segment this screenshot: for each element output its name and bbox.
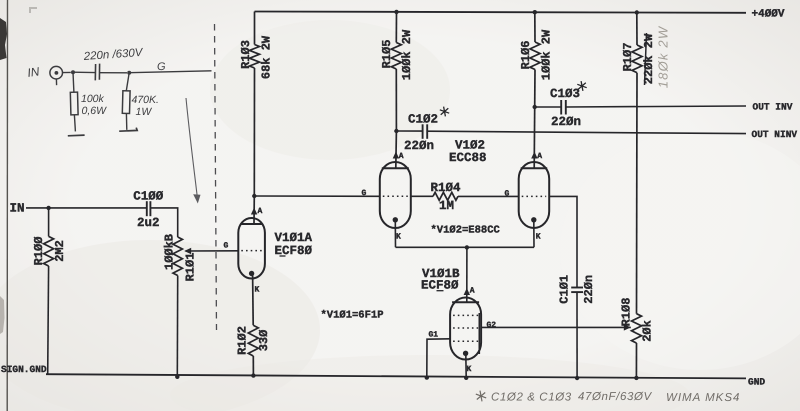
svg-text:G: G — [157, 61, 166, 73]
node V101A anode — [252, 194, 256, 198]
label G wiper — [224, 242, 229, 251]
label 220n C103 — [551, 115, 581, 129]
label 20k — [640, 320, 654, 342]
svg-text:GND: GND — [748, 377, 765, 388]
label G V102b — [505, 189, 510, 198]
wire R105 to node — [395, 69, 397, 131]
wire R103 top — [254, 12, 256, 45]
+400V rail — [255, 12, 747, 13]
svg-text:R1Ø8: R1Ø8 — [620, 298, 634, 327]
label 330 — [257, 330, 271, 352]
label A V102a — [399, 152, 404, 161]
wire R108 to gnd — [635, 343, 637, 378]
resistor R103 — [250, 45, 260, 69]
svg-text:1M: 1M — [439, 199, 454, 213]
anode arrow V101A — [251, 208, 257, 215]
label R103 — [239, 40, 253, 69]
label V102 — [455, 139, 485, 153]
pencil label 180k 2W — [656, 25, 671, 88]
svg-text:C1Ø3: C1Ø3 — [550, 87, 580, 101]
label 220n C101 — [582, 275, 596, 304]
node R107 rail — [635, 10, 639, 14]
strikethrough 220k — [645, 33, 647, 85]
node C102 — [394, 129, 398, 133]
node dot 2 (hand) — [127, 71, 131, 75]
wire V102b cathode — [533, 220, 535, 248]
label R107 — [621, 43, 635, 72]
svg-text:47ØnF/63ØV: 47ØnF/63ØV — [578, 391, 652, 403]
svg-text:A: A — [258, 207, 263, 216]
wire R106 to node — [534, 70, 536, 108]
svg-text:K: K — [396, 233, 401, 242]
capacitor C102 — [423, 124, 428, 139]
wire V101A cathode — [252, 274, 255, 326]
node R102 gnd — [251, 373, 255, 377]
label K V102b — [536, 233, 541, 242]
label R104 — [430, 181, 461, 195]
node G1 gnd — [425, 375, 429, 379]
label 1M — [439, 199, 454, 213]
wire V102a grid to R104 — [411, 195, 433, 197]
OUT NINV label — [752, 129, 798, 140]
wire V101B cathode — [465, 353, 467, 378]
wire R105 top — [395, 12, 397, 43]
annotation arrow (hand) — [186, 98, 201, 204]
svg-text:G1: G1 — [429, 331, 439, 340]
wire node1 to C220n — [73, 71, 95, 73]
IN label — [10, 202, 25, 216]
star C103 — [577, 81, 586, 91]
label 100k 2W R106 — [540, 29, 554, 80]
node tail — [465, 245, 469, 249]
resistor R105 — [391, 43, 401, 70]
svg-text:C1Ø2 & C1Ø3: C1Ø2 & C1Ø3 — [491, 392, 572, 404]
label A V101A — [258, 207, 263, 216]
wire R101 to gnd — [176, 276, 178, 377]
wire V102b grid right — [549, 196, 577, 287]
triode V102a — [380, 162, 411, 228]
wire C220n to node 2 — [100, 72, 127, 74]
svg-text:33Ø: 33Ø — [257, 330, 271, 352]
pencil note bottom — [476, 391, 741, 404]
note V102=E88CC — [431, 225, 501, 237]
label C100 — [133, 190, 164, 204]
svg-text:OUT NINV: OUT NINV — [752, 129, 798, 140]
resistor R107 — [632, 45, 642, 73]
node K gnd — [464, 376, 468, 380]
ground rail — [46, 374, 746, 378]
svg-text:2Øk: 2Øk — [640, 320, 654, 342]
label V101B — [422, 267, 460, 281]
node C101 gnd — [575, 376, 579, 380]
label 100k 0.6W (hand) — [81, 93, 107, 117]
node R101 gnd — [175, 375, 179, 379]
GND label — [748, 377, 765, 388]
svg-text:WIMA MKS4: WIMA MKS4 — [666, 392, 740, 404]
wire R100 lower — [47, 266, 50, 374]
svg-text:R1Ø6: R1Ø6 — [519, 41, 533, 70]
wire C103 left — [535, 106, 562, 108]
label K V102a — [396, 233, 401, 242]
star C102 — [440, 107, 449, 117]
svg-text:R1ØØ: R1ØØ — [32, 237, 46, 266]
separator dashed line — [215, 24, 217, 330]
wire node to V102a anode — [395, 131, 398, 168]
wire node to V101A anode — [253, 196, 255, 224]
label 68k 2W — [260, 35, 274, 79]
svg-text:22Øn: 22Øn — [582, 275, 596, 304]
svg-text:R1Ø7: R1Ø7 — [621, 43, 635, 72]
potentiometer R108 — [632, 314, 642, 343]
wire R102 to gnd — [252, 356, 254, 376]
label 100k 2W R105 — [400, 29, 414, 80]
label C103 — [550, 87, 580, 101]
label 2M2 — [53, 240, 67, 262]
wire node to V102b anode — [533, 107, 536, 168]
wire OUT INV — [566, 106, 746, 107]
R101 wiper arrow — [184, 248, 191, 254]
svg-text:K: K — [467, 365, 472, 374]
ground under 470K (hand) — [119, 128, 137, 132]
label 220n C102 — [404, 139, 434, 153]
node R100 top — [46, 206, 50, 210]
svg-text:1ØØk 2W: 1ØØk 2W — [540, 29, 554, 80]
connector J-IN (hand-drawn jack) — [50, 66, 63, 85]
label K V101A — [255, 286, 260, 295]
svg-text:G: G — [505, 189, 510, 198]
svg-text:C1Ø2: C1Ø2 — [408, 113, 438, 127]
node dot 1 (hand) — [71, 70, 75, 74]
svg-text:IN: IN — [10, 202, 25, 216]
resistor 470K 1W (hand-drawn box) — [122, 73, 130, 130]
label G2 — [487, 321, 497, 330]
svg-text:22Øn: 22Øn — [404, 139, 434, 153]
label ECF80 V101A — [275, 244, 313, 258]
wire G2 — [481, 326, 631, 328]
label G1 — [429, 331, 439, 340]
pentode V101B — [450, 298, 481, 360]
node R108 gnd — [634, 376, 638, 380]
resistor R104 — [433, 192, 458, 200]
svg-text:470K.: 470K. — [132, 94, 159, 106]
wire OUT NINV — [427, 131, 746, 133]
capacitor 220n/630V (hand-drawn) — [95, 64, 99, 81]
label 100kB — [163, 234, 177, 270]
label R106 — [519, 41, 533, 70]
R108 wiper arrow — [624, 324, 631, 330]
svg-text:C1Ø1: C1Ø1 — [557, 275, 571, 304]
pentode V101B inner g2 bar — [478, 313, 480, 354]
tail wire — [396, 246, 535, 248]
IN label (hand-drawn) — [26, 64, 40, 80]
label ECC88 — [449, 151, 487, 165]
svg-text:K: K — [255, 286, 260, 295]
wire tail to V101B anode — [466, 247, 468, 302]
label ECF80 V101B — [421, 279, 459, 293]
wire IN — [26, 207, 147, 209]
resistor 100k 0.6W (hand-drawn box) — [70, 72, 78, 131]
svg-text:SIGN.GND: SIGN.GND — [1, 364, 47, 375]
svg-text:R1Ø1: R1Ø1 — [184, 253, 198, 282]
wire R107 top — [636, 13, 638, 46]
label R101 — [184, 253, 198, 282]
svg-text:G: G — [224, 242, 229, 251]
wire R103 to node — [253, 68, 255, 196]
anode arrow V102b — [531, 152, 537, 159]
R101 wiper wire — [186, 250, 239, 252]
+400V label — [752, 9, 785, 21]
SIGN.GND label — [1, 364, 47, 375]
node R106 rail — [533, 10, 537, 14]
svg-text:1ØØk 2W: 1ØØk 2W — [400, 29, 414, 80]
label 220n/630V (hand) — [82, 47, 144, 63]
svg-text:2M2: 2M2 — [53, 240, 67, 262]
resistor R102 — [248, 325, 258, 356]
label R105 — [380, 40, 394, 69]
resistor R106 — [530, 42, 540, 70]
wire jack to node — [63, 71, 71, 73]
svg-text:K: K — [536, 233, 541, 242]
label R100 — [32, 237, 46, 266]
svg-text:R1Ø5: R1Ø5 — [380, 40, 394, 69]
svg-text:1W: 1W — [136, 106, 153, 118]
label G V102a — [362, 189, 367, 198]
wire C102 left — [396, 130, 422, 132]
label R108 — [620, 298, 634, 327]
label V101A — [275, 231, 313, 245]
label A V101B — [470, 287, 475, 296]
svg-text:OUT INV: OUT INV — [753, 102, 793, 113]
triode V101A — [238, 218, 265, 279]
note V101=6F1P — [321, 310, 384, 322]
potentiometer R101 — [173, 237, 182, 276]
wire grid V101A->V102a — [254, 195, 379, 197]
triode V102b — [519, 162, 550, 228]
wire R106 top — [534, 12, 536, 42]
svg-text:2u2: 2u2 — [137, 216, 160, 230]
wire R107 to R108 — [636, 73, 639, 314]
svg-text:0,6W: 0,6W — [82, 105, 108, 117]
svg-text:R1Ø2: R1Ø2 — [236, 326, 250, 355]
label 220k 2W R107 — [642, 33, 656, 84]
wire R104 to V102b grid — [458, 195, 519, 197]
wire R100 upper — [48, 208, 50, 237]
svg-text:1ØØkB: 1ØØkB — [163, 234, 177, 270]
anode arrow V101B — [464, 288, 470, 295]
node R105 rail — [394, 10, 398, 14]
svg-text:R1Ø3: R1Ø3 — [239, 40, 253, 69]
capacitor C103 — [561, 100, 566, 115]
svg-text:R1Ø4: R1Ø4 — [430, 181, 461, 195]
label C102 — [408, 113, 438, 127]
label A V102b — [537, 152, 542, 161]
svg-text:C1ØØ: C1ØØ — [133, 190, 164, 204]
wire C101 to gnd — [576, 292, 578, 378]
svg-text:*V1Ø1=6F1P: *V1Ø1=6F1P — [321, 310, 384, 322]
svg-text:A: A — [470, 287, 475, 296]
svg-text:*V1Ø2=E88CC: *V1Ø2=E88CC — [431, 225, 501, 237]
svg-text:A: A — [537, 152, 542, 161]
label 2u2 — [137, 216, 160, 230]
label R102 — [236, 326, 250, 355]
anode arrow V102a — [393, 152, 399, 159]
svg-text:18Øk 2W: 18Øk 2W — [656, 25, 671, 88]
label C101 — [557, 275, 571, 304]
svg-text:+4ØØV: +4ØØV — [752, 9, 785, 21]
OUT INV label — [753, 102, 793, 113]
label K V101B — [467, 365, 472, 374]
label 470K 1W (hand) — [132, 94, 159, 118]
svg-text:68k 2W: 68k 2W — [260, 35, 274, 79]
ground under 100k (hand) — [68, 134, 85, 137]
svg-text:V1Ø1A: V1Ø1A — [275, 231, 313, 245]
wire G1 — [427, 339, 450, 378]
wire C100 to R101 — [150, 208, 177, 237]
svg-text:ECC88: ECC88 — [449, 151, 487, 165]
svg-text:A: A — [399, 152, 404, 161]
node C103 — [533, 105, 537, 109]
svg-text:100k: 100k — [81, 93, 105, 105]
label G (hand) — [157, 61, 166, 73]
wire V102a cathode — [394, 220, 396, 248]
capacitor C101 — [571, 288, 583, 293]
svg-text:IN: IN — [26, 64, 40, 80]
svg-text:G2: G2 — [487, 321, 497, 330]
wire node2 to G — [129, 71, 211, 73]
capacitor C100 — [147, 201, 151, 216]
resistor R100 — [44, 236, 54, 266]
svg-text:22Øn: 22Øn — [551, 115, 581, 129]
